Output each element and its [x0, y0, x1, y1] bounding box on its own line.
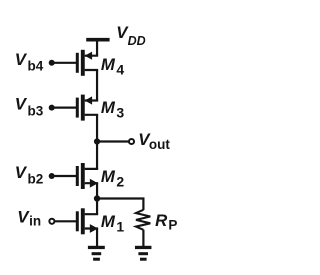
- svg-text:out: out: [149, 137, 170, 152]
- svg-text:b2: b2: [28, 171, 44, 186]
- channel bar M3: [81, 95, 85, 121]
- wire M1 source to ground: [96, 229, 98, 247]
- svg-text:in: in: [29, 214, 41, 229]
- VDD supply rail: [86, 38, 109, 42]
- svg-text:b3: b3: [28, 104, 44, 119]
- open terminal Vin: [49, 219, 54, 224]
- svg-text:M: M: [101, 55, 116, 74]
- svg-text:4: 4: [116, 61, 124, 77]
- drain stub M3: [85, 115, 97, 116]
- wire gate M4: [54, 62, 76, 64]
- channel bar M2: [81, 163, 85, 189]
- ground under M1: [88, 246, 105, 261]
- svg-text:M: M: [101, 212, 116, 231]
- svg-text:3: 3: [116, 105, 124, 121]
- node dot M1 drain / RP: [94, 195, 100, 201]
- svg-text:M: M: [101, 98, 116, 117]
- node dot Vb3: [49, 105, 55, 111]
- svg-text:1: 1: [116, 218, 124, 234]
- pmos arrow M3: [85, 96, 92, 104]
- resistor RP zigzag: [136, 210, 150, 230]
- wire gate M2: [54, 175, 76, 177]
- gate plate M4: [76, 53, 79, 73]
- nmos arrow M2: [90, 179, 98, 188]
- pmos arrow M4: [85, 52, 92, 60]
- svg-text:P: P: [168, 217, 177, 232]
- wire gate M3: [54, 106, 76, 108]
- svg-text:b4: b4: [28, 59, 44, 74]
- nmos arrow M1: [90, 224, 98, 233]
- source stub M4: [85, 55, 97, 56]
- svg-text:DD: DD: [128, 34, 146, 48]
- channel bar M4: [81, 50, 85, 76]
- source stub M2: [85, 183, 97, 184]
- gate plate M3: [76, 98, 79, 118]
- drain stub M2: [85, 168, 97, 169]
- source stub M3: [85, 100, 97, 101]
- wire M4 drain to M3 source: [96, 70, 98, 101]
- node dot Vb4: [49, 60, 55, 66]
- open terminal Vout: [129, 139, 134, 144]
- svg-text:R: R: [155, 211, 167, 230]
- ground under RP: [135, 246, 152, 261]
- svg-text:V: V: [15, 163, 28, 182]
- svg-text:V: V: [15, 95, 28, 114]
- gate plate M2: [76, 166, 79, 186]
- wire to Vout terminal: [97, 140, 129, 142]
- drain stub M1: [85, 213, 97, 214]
- svg-text:2: 2: [116, 173, 124, 189]
- transistor M1: [55, 208, 97, 234]
- wire VDD to M4 source: [96, 40, 98, 56]
- gate plate M1: [76, 211, 79, 231]
- transistor M4: [54, 50, 97, 76]
- source stub M1: [85, 229, 97, 230]
- wire M2 source to M1 drain: [96, 183, 98, 214]
- svg-text:M: M: [101, 167, 116, 186]
- node dot Vb2: [49, 173, 55, 179]
- wire node to RP: [97, 199, 143, 211]
- transistor M3: [54, 95, 97, 121]
- wire gate M1: [55, 220, 76, 222]
- node dot Vout: [94, 138, 100, 144]
- svg-text:V: V: [15, 50, 28, 69]
- wire RP to ground: [142, 230, 144, 247]
- drain stub M4: [85, 70, 97, 71]
- transistor M2: [54, 163, 97, 189]
- channel bar M1: [81, 208, 85, 234]
- wire M3 drain to M2 drain (output node): [96, 115, 98, 169]
